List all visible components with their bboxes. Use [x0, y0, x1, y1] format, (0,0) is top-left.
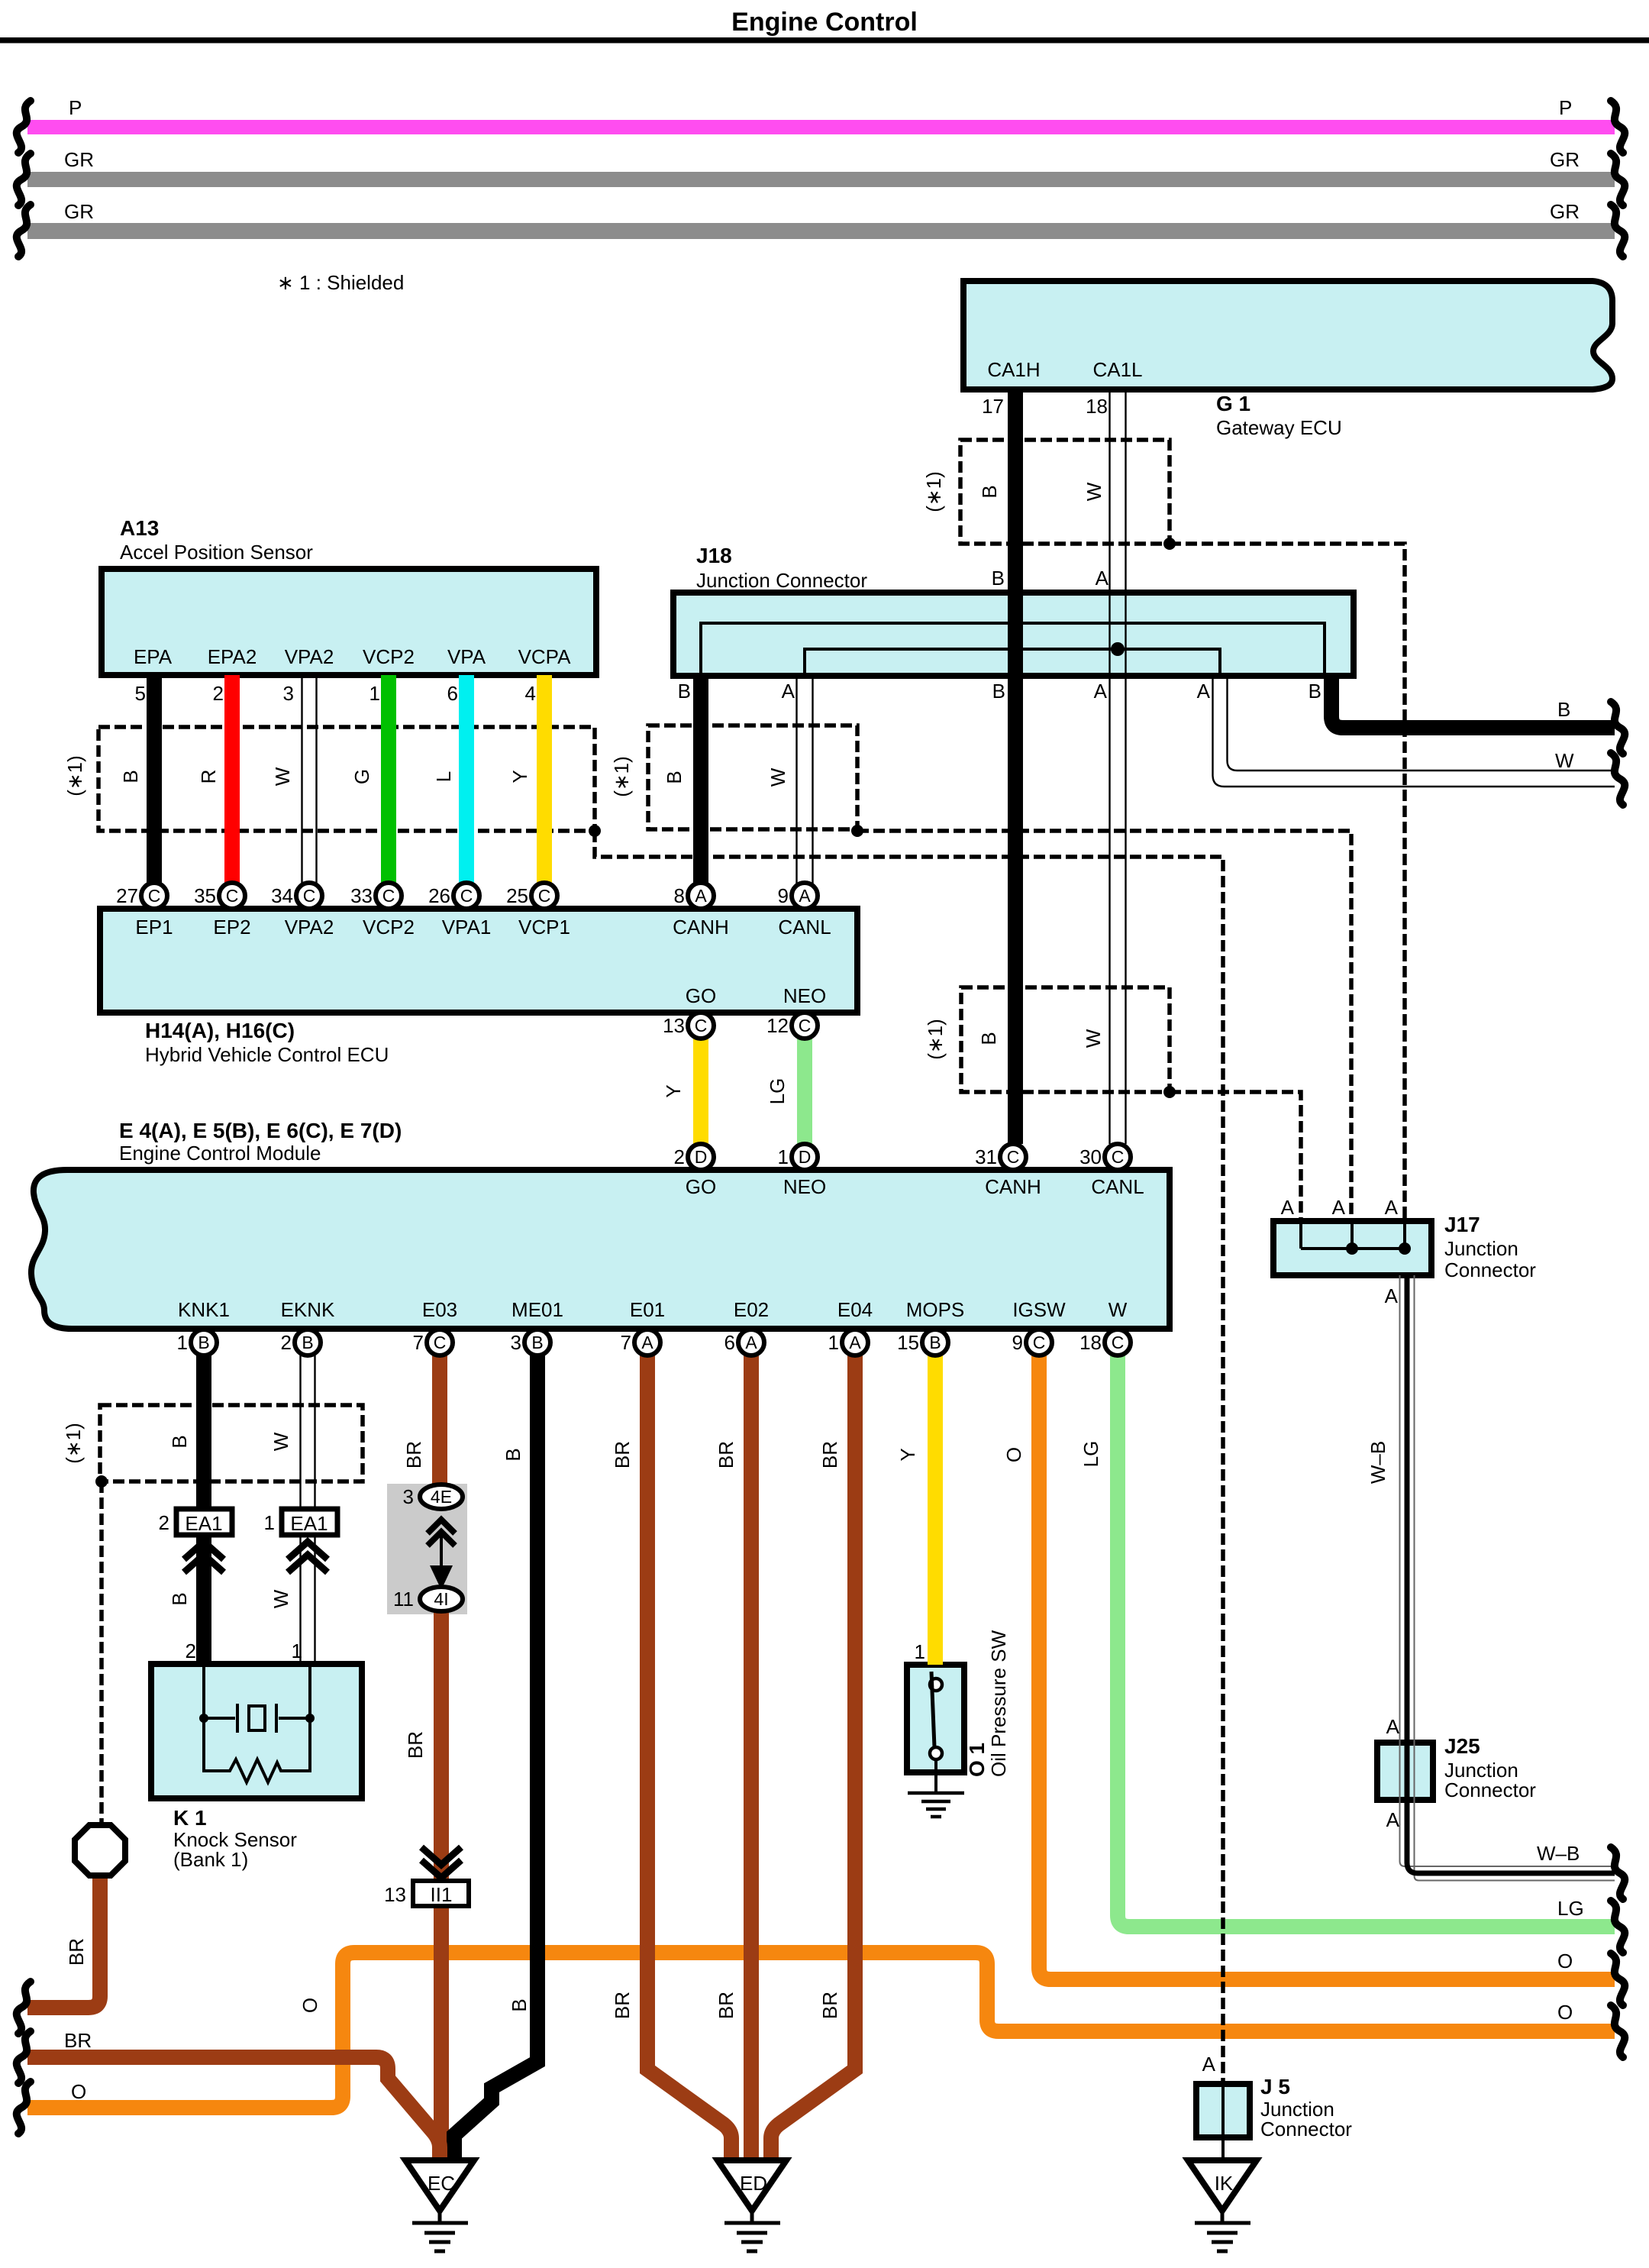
svg-text:(∗1): (∗1)	[63, 755, 86, 796]
svg-text:A: A	[1386, 1715, 1400, 1738]
svg-text:Hybrid Vehicle Control ECU: Hybrid Vehicle Control ECU	[145, 1043, 389, 1066]
brace right of LG exit	[1611, 1901, 1625, 1953]
svg-text:12: 12	[766, 1014, 789, 1037]
junction dot J17 bus 2	[1399, 1242, 1411, 1255]
svg-text:Y: Y	[662, 1084, 685, 1097]
svg-text:CANL: CANL	[1091, 1175, 1144, 1198]
wire W from J18 to HV ECU pin 9 CANL (white)	[797, 676, 813, 884]
pin 33 C of HV ECU	[376, 883, 402, 909]
svg-text:CANL: CANL	[778, 916, 831, 939]
svg-text:C: C	[303, 886, 316, 906]
svg-text:2: 2	[159, 1511, 169, 1534]
svg-text:33: 33	[350, 884, 373, 907]
svg-text:B: B	[502, 1448, 524, 1461]
junction dot knock shield	[95, 1475, 108, 1488]
svg-text:15: 15	[897, 1331, 919, 1354]
svg-text:1: 1	[915, 1640, 925, 1663]
svg-text:A: A	[1096, 567, 1109, 590]
pin 31 C of ECM	[1000, 1144, 1026, 1170]
svg-text:EP2: EP2	[213, 916, 250, 939]
junction dot J18 shield	[851, 825, 863, 837]
brace right of O exit 1	[1611, 1953, 1625, 2005]
svg-text:E 4(A), E 5(B), E 6(C), E 7(D): E 4(A), E 5(B), E 6(C), E 7(D)	[119, 1119, 402, 1142]
wire J5 to ground IK	[1221, 2137, 1225, 2161]
svg-text:VPA1: VPA1	[442, 916, 492, 939]
pin 9 A of HV ECU	[792, 883, 818, 909]
connector 4E oval	[420, 1485, 463, 1509]
svg-text:A: A	[695, 886, 707, 906]
pin 2 D of ECM	[688, 1144, 714, 1170]
connector 4E chevron up	[428, 1520, 455, 1546]
connector EA1 pin 2 box	[176, 1509, 232, 1535]
svg-text:(∗1): (∗1)	[62, 1423, 85, 1464]
svg-text:CANH: CANH	[985, 1175, 1041, 1198]
svg-text:35: 35	[194, 884, 216, 907]
svg-text:E04: E04	[837, 1298, 873, 1321]
svg-text:W: W	[271, 767, 294, 786]
wire shield drain from ECM box to J17 pin A	[1170, 1092, 1301, 1221]
svg-text:2: 2	[674, 1145, 685, 1168]
knock sensor K1 lead right	[308, 1667, 311, 1718]
wire E03 BR from ECM pin 7 to connector 4E (brown)	[432, 1355, 447, 1485]
knock sensor K1 resistor	[204, 1718, 310, 1782]
brace right of B exit	[1611, 702, 1625, 754]
connector EA1 pin 1 chevron	[288, 1542, 328, 1572]
pin 6 A of ECM E02	[738, 1329, 764, 1355]
junction dot J18 bus A	[1111, 642, 1125, 656]
svg-text:Connector: Connector	[1444, 1779, 1536, 1801]
svg-text:W: W	[1083, 482, 1105, 501]
svg-text:C: C	[1007, 1147, 1020, 1167]
connector II1 chevron down	[421, 1847, 461, 1878]
svg-text:A: A	[1202, 2053, 1216, 2076]
svg-text:B: B	[508, 1998, 531, 2011]
svg-text:26: 26	[428, 884, 450, 907]
wire O bus from bottom-left exit jogging right to O exit (orange)	[27, 1953, 1615, 2108]
ground IK triangle	[1188, 2160, 1257, 2211]
svg-text:6: 6	[447, 682, 458, 705]
svg-text:LG: LG	[766, 1078, 789, 1105]
svg-text:K 1: K 1	[173, 1806, 207, 1830]
J17 internal pin stubs	[1301, 1223, 1405, 1249]
pin 7 A of ECM E01	[634, 1329, 660, 1355]
svg-text:Gateway ECU: Gateway ECU	[1216, 416, 1342, 439]
wire NEO LG from HV ECU pin 12 to ECM pin 1 (light green)	[797, 1039, 812, 1144]
svg-text:4: 4	[525, 682, 536, 705]
svg-text:3: 3	[403, 1485, 414, 1508]
svg-text:4E: 4E	[431, 1487, 452, 1507]
brace right of W exit	[1611, 753, 1625, 805]
J18 internal bus bar B	[701, 623, 1325, 674]
switch O1 lever	[931, 1672, 934, 1747]
svg-text:A: A	[782, 680, 795, 703]
svg-text:(∗1): (∗1)	[610, 756, 633, 797]
svg-text:L: L	[432, 771, 455, 782]
svg-text:A: A	[849, 1333, 861, 1352]
wire shield drain from J18 box to J17 pin A	[857, 831, 1351, 1221]
svg-text:W: W	[269, 1432, 292, 1451]
J5 internal through line	[1221, 2085, 1225, 2137]
svg-text:5: 5	[135, 682, 146, 705]
svg-text:CANH: CANH	[673, 916, 729, 939]
brace left of O bus exit	[17, 2082, 31, 2134]
ECU G1 Gateway ECU box	[963, 281, 1612, 389]
pin 15 B of ECM MOPS	[922, 1329, 948, 1355]
svg-text:A: A	[1386, 1808, 1400, 1831]
svg-text:GR: GR	[1550, 200, 1580, 223]
svg-text:(Bank 1): (Bank 1)	[173, 1848, 248, 1871]
svg-text:VCP1: VCP1	[518, 916, 570, 939]
svg-text:BR: BR	[818, 1441, 841, 1468]
svg-text:3: 3	[283, 682, 294, 705]
svg-text:C: C	[799, 1016, 812, 1035]
knock sensor K1 lead left	[202, 1667, 205, 1718]
svg-text:1: 1	[292, 1640, 302, 1662]
svg-text:W: W	[766, 767, 789, 787]
wire CA1H/CANH B from G1 pin 17 through J18 to ECM pin 31 (black)	[1008, 389, 1023, 1144]
wire BR bus from bottom-left exit to ground EC (brown)	[27, 2057, 440, 2161]
pin 34 C of HV ECU	[296, 883, 322, 909]
svg-text:BR: BR	[64, 2029, 92, 2052]
connector J5 Junction Connector box	[1196, 2084, 1250, 2137]
wire IGSW O from ECM pin 9 to right exit (orange)	[1039, 1355, 1615, 1979]
wire shield drain from A13 box to J5	[595, 831, 1223, 1901]
svg-text:C: C	[148, 886, 161, 906]
wire B from J18 to HV ECU pin 8 CANH (black)	[693, 676, 708, 884]
svg-text:4I: 4I	[434, 1589, 448, 1609]
connector J25 Junction Connector box	[1377, 1743, 1433, 1800]
shield box (*1) at ECM CANH/CANL	[961, 987, 1170, 1092]
svg-text:NEO: NEO	[783, 984, 826, 1007]
svg-text:18: 18	[1086, 395, 1108, 418]
svg-text:J25: J25	[1444, 1734, 1480, 1758]
svg-text:9: 9	[778, 884, 789, 907]
wire E04 BR from ECM pin 1 to ground ED (brown)	[771, 1355, 855, 2161]
connector J17 Junction Connector box	[1273, 1221, 1431, 1275]
pin 3 B of ECM ME01	[524, 1329, 550, 1355]
svg-text:A: A	[745, 1333, 757, 1352]
svg-text:H14(A), H16(C): H14(A), H16(C)	[145, 1019, 295, 1042]
svg-text:GO: GO	[686, 984, 716, 1007]
brace right of P bus	[1611, 101, 1625, 153]
svg-text:KNK1: KNK1	[178, 1298, 230, 1321]
svg-text:C: C	[695, 1016, 708, 1035]
svg-text:8: 8	[674, 884, 685, 907]
junction dot J18 bus B	[1008, 616, 1022, 630]
brace left of GR bus 2	[17, 205, 31, 257]
knock sensor K1 node dot right	[305, 1714, 315, 1723]
svg-text:VCPA: VCPA	[518, 645, 572, 668]
knock sensor K1 piezo crystal box	[249, 1706, 265, 1730]
wire GR bus 1 (gray)	[27, 172, 1615, 187]
svg-text:∗ 1 : Shielded: ∗ 1 : Shielded	[277, 271, 404, 294]
svg-text:VPA: VPA	[447, 645, 486, 668]
svg-text:B: B	[168, 1592, 191, 1605]
svg-text:B: B	[977, 1032, 1000, 1045]
svg-text:EPA2: EPA2	[208, 645, 257, 668]
wire ME01 B from ECM pin 3 to ground EC (black)	[454, 1355, 537, 2161]
svg-text:C: C	[460, 886, 473, 906]
ground ED stem and bars	[724, 2211, 780, 2251]
svg-text:34: 34	[271, 884, 293, 907]
pin 26 C of HV ECU	[453, 883, 479, 909]
svg-text:BR: BR	[611, 1992, 634, 2019]
wire W-B black core from J17 through J25 to right exit	[1407, 1275, 1615, 1873]
svg-text:IK: IK	[1215, 2172, 1234, 2195]
junction dot ECM shield	[1163, 1086, 1176, 1098]
svg-text:ED: ED	[740, 2172, 767, 2195]
svg-text:MOPS: MOPS	[906, 1298, 965, 1321]
svg-text:CA1H: CA1H	[987, 358, 1040, 381]
wire BR from connector 4I through II1 to ground EC (brown)	[434, 1610, 449, 2160]
svg-text:EP1: EP1	[135, 916, 173, 939]
svg-text:O: O	[1002, 1447, 1025, 1462]
svg-text:A: A	[1281, 1196, 1295, 1219]
svg-text:O: O	[1557, 1950, 1573, 1972]
svg-text:P: P	[69, 96, 82, 119]
svg-text:17: 17	[982, 395, 1004, 418]
svg-text:B: B	[992, 680, 1005, 703]
wire BR from noise filter octagon to bottom-left exit (brown)	[27, 1875, 100, 2008]
pin 7 C of ECM E03	[427, 1329, 453, 1355]
pin 8 A of HV ECU	[688, 883, 714, 909]
switch O1 contact top	[930, 1678, 942, 1691]
svg-text:B: B	[531, 1333, 543, 1352]
pin 1 A of ECM E04	[842, 1329, 868, 1355]
svg-text:C: C	[1112, 1147, 1125, 1167]
svg-text:2: 2	[186, 1640, 196, 1662]
svg-text:B: B	[678, 680, 691, 703]
connector EA1 pin 2 chevron	[184, 1542, 224, 1572]
svg-text:13: 13	[663, 1014, 685, 1037]
svg-text:EC: EC	[428, 2172, 455, 2195]
svg-text:Engine Control Module: Engine Control Module	[119, 1142, 321, 1165]
wire VCP2 G from A13 pin 1 to HV ECU pin 33 (green)	[381, 675, 396, 884]
brace left of GR bus 1	[17, 153, 31, 205]
svg-text:EKNK: EKNK	[281, 1298, 335, 1321]
svg-text:Oil Pressure SW: Oil Pressure SW	[987, 1630, 1010, 1777]
ECU E4-E7 Engine Control Module box	[31, 1170, 1170, 1329]
connector 4E-4I gray pass-through background	[387, 1484, 467, 1614]
wire EPA B from A13 pin 5 to HV ECU pin 27 (black)	[147, 675, 162, 884]
pin 2 B of ECM EKNK	[295, 1329, 321, 1355]
svg-text:E01: E01	[630, 1298, 665, 1321]
wire EPA2 R from A13 pin 2 to HV ECU pin 35 (red)	[224, 675, 240, 884]
pin 12 C of HV ECU	[792, 1013, 818, 1039]
switch O1 chassis ground bars	[908, 1793, 964, 1817]
svg-text:B: B	[929, 1333, 941, 1352]
svg-text:B: B	[198, 1333, 209, 1352]
shield box (*1) at A13 wires	[98, 727, 595, 831]
svg-text:6: 6	[724, 1331, 735, 1354]
connector EA1 pin 1 box	[282, 1509, 337, 1535]
svg-text:EA1: EA1	[185, 1512, 222, 1535]
svg-text:IGSW: IGSW	[1012, 1298, 1066, 1321]
svg-text:A: A	[1385, 1284, 1399, 1307]
svg-text:A: A	[1197, 680, 1211, 703]
sensor K1 Knock Sensor box	[151, 1664, 362, 1798]
pin 18 C of ECM W	[1105, 1329, 1131, 1355]
svg-text:(∗1): (∗1)	[924, 1019, 947, 1060]
svg-text:Connector: Connector	[1444, 1258, 1536, 1281]
svg-text:VPA2: VPA2	[285, 916, 334, 939]
svg-text:A: A	[799, 886, 811, 906]
switch O1 contact bottom	[930, 1747, 942, 1759]
svg-text:BR: BR	[65, 1938, 88, 1966]
pin 1 B of ECM KNK1	[191, 1329, 217, 1355]
svg-text:B: B	[302, 1333, 313, 1352]
svg-text:A: A	[1385, 1196, 1399, 1219]
ground ED triangle	[718, 2160, 786, 2211]
svg-text:C: C	[434, 1333, 447, 1352]
svg-text:BR: BR	[715, 1441, 737, 1468]
svg-text:B: B	[1557, 698, 1570, 721]
wire CA1L/CANL W from G1 pin 18 through J18 to ECM pin 30 (white)	[1110, 389, 1126, 1144]
svg-text:ME01: ME01	[511, 1298, 563, 1321]
svg-text:G: G	[350, 769, 373, 784]
svg-text:G 1: G 1	[1216, 392, 1250, 415]
svg-text:GR: GR	[64, 200, 94, 223]
svg-text:R: R	[197, 770, 220, 784]
wire W/LG from ECM pin 18 to right exit (light green)	[1118, 1355, 1615, 1927]
wire shield drain from G1 box to J17 pin A	[1170, 544, 1405, 1221]
svg-text:25: 25	[506, 884, 528, 907]
svg-text:O: O	[298, 1998, 321, 2013]
svg-text:A: A	[641, 1333, 653, 1352]
svg-text:30: 30	[1079, 1145, 1102, 1168]
ground IK stem and bars	[1195, 2211, 1250, 2251]
noise filter octagon	[75, 1825, 125, 1875]
J18 internal bus bar A	[805, 649, 1220, 674]
wire VPA2 W from A13 pin 3 to HV ECU pin 34 (white)	[302, 675, 317, 884]
svg-text:Accel Position Sensor: Accel Position Sensor	[120, 541, 313, 564]
svg-text:D: D	[799, 1147, 812, 1167]
svg-text:EPA: EPA	[134, 645, 173, 668]
svg-text:W: W	[1082, 1029, 1105, 1048]
svg-text:BR: BR	[818, 1992, 841, 2019]
J17 internal bus bar	[1301, 1247, 1405, 1250]
svg-text:11: 11	[393, 1588, 414, 1611]
svg-text:BR: BR	[715, 1992, 737, 2019]
wire E01 BR from ECM pin 7 to ground ED (brown)	[647, 1355, 731, 2161]
wire P bus (pink)	[27, 120, 1615, 134]
svg-text:9: 9	[1012, 1331, 1023, 1354]
svg-text:Connector: Connector	[1260, 2118, 1352, 2140]
svg-text:1: 1	[778, 1145, 789, 1168]
svg-text:7: 7	[413, 1331, 424, 1354]
svg-text:A: A	[1332, 1196, 1346, 1219]
svg-text:3: 3	[511, 1331, 521, 1354]
connector J18 Junction Connector box	[673, 593, 1354, 676]
svg-text:B: B	[978, 485, 1001, 498]
svg-text:13: 13	[384, 1883, 406, 1906]
brace right of GR bus 1	[1611, 153, 1625, 205]
svg-text:2: 2	[213, 682, 224, 705]
svg-text:D: D	[695, 1147, 708, 1167]
pin 27 C of HV ECU	[141, 883, 167, 909]
svg-text:E02: E02	[734, 1298, 769, 1321]
svg-text:W: W	[1108, 1298, 1128, 1321]
svg-text:O: O	[1557, 2001, 1573, 2024]
svg-text:LG: LG	[1557, 1897, 1584, 1920]
svg-text:C: C	[226, 886, 239, 906]
svg-text:O 1: O 1	[965, 1743, 989, 1777]
svg-text:J18: J18	[696, 544, 732, 567]
svg-text:W–B: W–B	[1367, 1441, 1389, 1484]
svg-text:C: C	[538, 886, 551, 906]
title underline	[0, 37, 1649, 44]
svg-text:C: C	[382, 886, 395, 906]
ground EC triangle	[405, 2160, 474, 2211]
connector 4E-4I link line	[440, 1532, 443, 1573]
connector II1 box	[413, 1881, 469, 1906]
svg-text:A13: A13	[120, 516, 159, 540]
svg-text:W: W	[1555, 749, 1574, 772]
svg-text:1: 1	[177, 1331, 188, 1354]
svg-text:E03: E03	[422, 1298, 457, 1321]
svg-text:B: B	[119, 770, 142, 783]
wire W-B gray outline from J17 through J25 to right exit	[1400, 1275, 1615, 1881]
pin 1 D of ECM	[792, 1144, 818, 1170]
svg-text:VPA2: VPA2	[285, 645, 334, 668]
svg-text:27: 27	[116, 884, 138, 907]
brace left of BR bus exit	[17, 2031, 31, 2083]
svg-text:2: 2	[281, 1331, 292, 1354]
junction dot A13 shield	[589, 825, 601, 837]
svg-text:18: 18	[1079, 1331, 1102, 1354]
sensor A13 Accel Position Sensor box	[102, 569, 596, 675]
svg-text:O: O	[71, 2080, 86, 2103]
svg-text:Y: Y	[896, 1448, 919, 1461]
svg-text:7: 7	[621, 1331, 631, 1354]
svg-text:BR: BR	[611, 1441, 634, 1468]
pin 13 C of HV ECU	[688, 1013, 714, 1039]
knock sensor K1 node dot left	[199, 1714, 208, 1723]
wire VPA L from A13 pin 6 to HV ECU pin 26 (light blue)	[459, 675, 474, 884]
svg-text:NEO: NEO	[783, 1175, 826, 1198]
svg-text:C: C	[1112, 1333, 1125, 1352]
svg-text:Y: Y	[508, 770, 531, 783]
shield box (*1) at J18 CANH/CANL	[648, 725, 857, 829]
svg-text:GO: GO	[686, 1175, 716, 1198]
pin 9 C of ECM IGSW	[1026, 1329, 1052, 1355]
svg-text:1: 1	[828, 1331, 839, 1354]
svg-text:GR: GR	[64, 148, 94, 171]
svg-text:BR: BR	[402, 1441, 425, 1468]
svg-text:B: B	[168, 1435, 191, 1448]
wire MOPS Y from ECM pin 15 to oil pressure switch (yellow)	[928, 1355, 943, 1665]
svg-text:LG: LG	[1079, 1441, 1102, 1468]
svg-text:A: A	[1094, 680, 1108, 703]
switch O1 Oil Pressure SW box	[907, 1665, 964, 1772]
brace right of O exit 2	[1611, 2005, 1625, 2057]
svg-text:Engine Control: Engine Control	[731, 8, 918, 37]
pin 30 C of ECM	[1105, 1144, 1131, 1170]
svg-text:P: P	[1559, 96, 1572, 119]
svg-text:VCP2: VCP2	[363, 916, 415, 939]
pin 25 C of HV ECU	[531, 883, 557, 909]
brace left of BR octagon exit	[17, 1982, 31, 2034]
svg-text:J17: J17	[1444, 1213, 1480, 1236]
connector 4I oval	[420, 1587, 463, 1611]
svg-text:(∗1): (∗1)	[922, 471, 945, 512]
brace right of W-B exit	[1611, 1847, 1625, 1899]
junction dot G1 shield	[1163, 538, 1176, 550]
brace left of P bus	[17, 101, 31, 153]
wire E02 BR from ECM pin 6 to ground ED (brown)	[744, 1355, 759, 2161]
shield box (*1) at G1 CA1H/CA1L	[960, 440, 1170, 544]
svg-text:1: 1	[264, 1511, 275, 1534]
